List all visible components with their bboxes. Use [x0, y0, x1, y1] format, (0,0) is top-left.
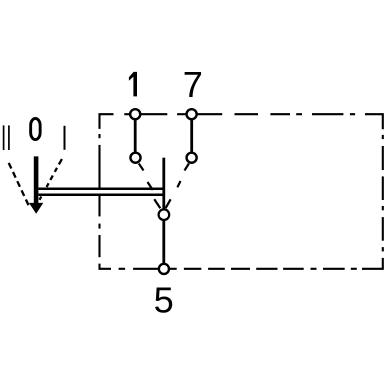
switch body outline, top edge (dash-dot)	[100, 114, 383, 129]
svg-text:5: 5	[154, 280, 174, 321]
wire terminal 1 to fixed contact	[134, 120, 137, 153]
wire common pole upper	[162, 158, 165, 209]
switch body outline, left edge (dash-dot)	[98, 134, 100, 257]
position label I	[64, 126, 66, 150]
fixed contact of terminal 7	[187, 153, 197, 163]
wire terminal 7 to fixed contact	[190, 120, 193, 153]
switch body outline, bottom edge (dash-dot)	[100, 264, 357, 269]
position label II	[4, 125, 9, 150]
fixed contact of terminal 1	[130, 153, 140, 163]
wire common pole lower	[162, 221, 165, 264]
movable contact of pole	[159, 209, 170, 220]
terminal 7	[187, 109, 197, 119]
svg-text:7: 7	[183, 64, 203, 105]
terminal 5	[159, 264, 169, 274]
switch body outline, right edge (dash-dot)	[362, 135, 383, 269]
pin label 1	[129, 72, 137, 97]
position label 0	[31, 118, 41, 139]
actuator lever arrow (position 0)	[29, 156, 43, 213]
lever travel dashed line to position I	[40, 159, 62, 200]
mechanical linkage (double line)	[38, 189, 165, 195]
switching path contact 1 to pole (dashed)	[139, 164, 161, 209]
terminal 1	[130, 109, 140, 119]
switching path contact 7 to pole (dashed)	[166, 164, 189, 209]
lever travel dashed line to position II	[9, 163, 29, 206]
